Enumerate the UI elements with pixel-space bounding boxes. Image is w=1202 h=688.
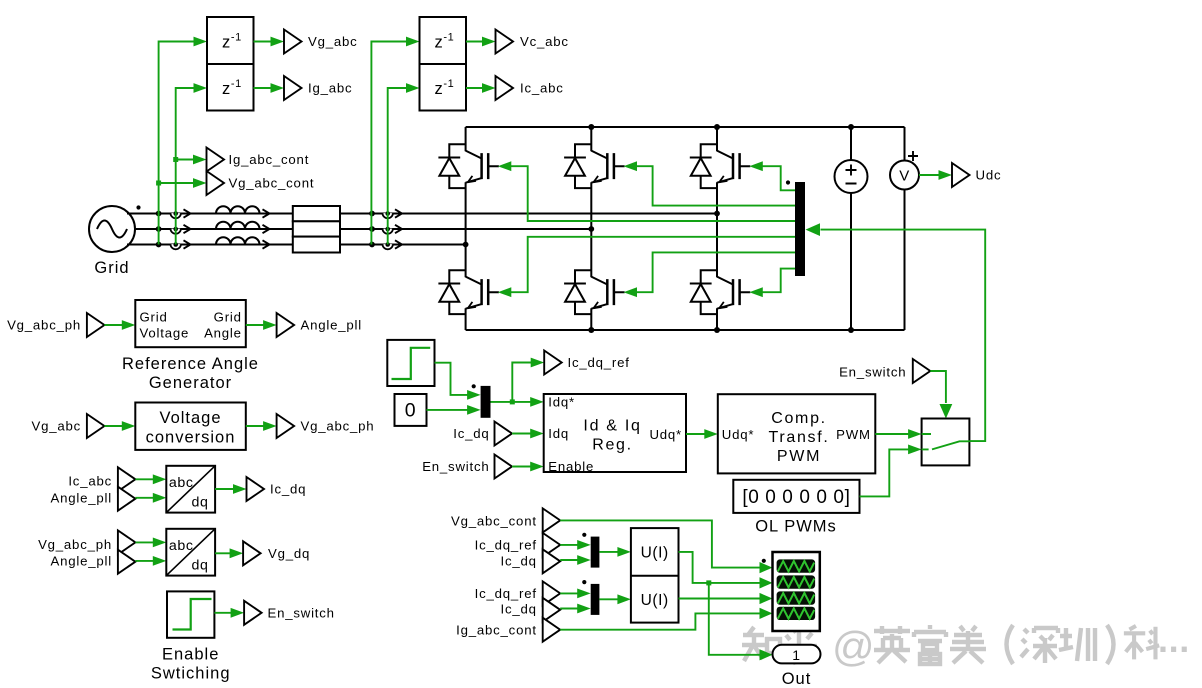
svg-text:V: V (899, 168, 910, 185)
port Ic_abc (496, 76, 514, 100)
svg-text:Ic_abc: Ic_abc (520, 81, 564, 96)
mux bar 4 (591, 584, 600, 615)
svg-text:Reg.: Reg. (592, 437, 633, 454)
current sensor 2 phase A (383, 211, 393, 218)
wire to ref angle gen (104, 324, 123, 326)
current sensor 2 phase C (383, 242, 393, 249)
Reference Angle Generator block U_RAG (122, 300, 259, 392)
wire dq1 in2 (135, 497, 154, 499)
svg-text:Ic_abc: Ic_abc (68, 474, 112, 489)
svg-text:conversion: conversion (146, 429, 236, 447)
transistor Q6 (leg2 bottom IGBT+diode) (564, 270, 625, 314)
node rail bottom dc (848, 327, 854, 333)
svg-text:Vg_abc_cont: Vg_abc_cont (451, 513, 537, 528)
three-phase RLC branch block (293, 206, 340, 253)
svg-text:Vg_dq: Vg_dq (268, 546, 310, 561)
node tap A2 (369, 211, 375, 217)
wire to mux3 in2 (560, 559, 579, 561)
svg-text:Out: Out (782, 670, 812, 688)
watermark zhihu attribution (decorative, drawn behind) (742, 625, 1159, 664)
node scope in2 branch (706, 580, 711, 585)
arrow gate Q5 (749, 161, 763, 171)
wire mux to Idq* (491, 401, 532, 403)
wire gate p5 to Q6 (635, 252, 796, 292)
svg-text:Vg_abc_ph: Vg_abc_ph (38, 537, 112, 552)
leg 3 vertical (716, 127, 718, 330)
svg-text:Ic_dq: Ic_dq (453, 426, 489, 441)
svg-text:...: ... (1158, 619, 1190, 660)
wire gate p3 to Q1 (509, 166, 795, 221)
port Vg_abc (284, 30, 302, 54)
svg-text:dq: dq (192, 558, 209, 574)
svg-text:Angle_pll: Angle_pll (301, 318, 362, 333)
svg-text:Voltage: Voltage (140, 326, 190, 341)
inductor Lc (216, 237, 260, 244)
svg-text:Udq*: Udq* (722, 427, 755, 442)
wire dq2 in2 (135, 560, 154, 562)
inductor Lb (216, 222, 260, 229)
svg-text:[0 0 0 0 0 0]: [0 0 0 0 0 0] (742, 487, 850, 508)
arrow gate Q1 (498, 161, 512, 171)
wire U(I)2 to scope in3 (679, 598, 761, 600)
Comp Transf PWM block (718, 394, 876, 473)
current sensor phase B (171, 227, 181, 234)
arrow gate Q6 (624, 287, 638, 297)
port Vg_abc_ph out (277, 414, 295, 438)
svg-text:abc: abc (169, 475, 194, 491)
wire dq2 out (215, 552, 231, 554)
svg-text:Enable: Enable (548, 459, 594, 474)
arrow gate Q4 (498, 287, 512, 297)
wire dq1 in1 (135, 478, 154, 480)
wire phase C (127, 244, 466, 246)
node rail top leg2 (588, 124, 594, 130)
transistor Q2 (leg3 bottom IGBT+diode) (690, 270, 751, 314)
port Vg_dq out (243, 541, 261, 565)
wire branch to Ic_dq_ref (512, 363, 532, 402)
svg-text:Vg_abc_ph: Vg_abc_ph (301, 419, 375, 434)
wire branch to Vg_abc_cont (159, 182, 194, 184)
wire mux3 to U(I)1 (599, 551, 619, 553)
wire mux4 to U(I)2 (599, 598, 619, 600)
wire to mux3 in1 (560, 544, 579, 546)
svg-text:abc: abc (169, 538, 194, 554)
svg-text:Grid: Grid (214, 310, 242, 325)
svg-text:1: 1 (792, 647, 800, 663)
wire dq1 out (215, 488, 234, 490)
svg-text:Transf.: Transf. (768, 429, 829, 446)
svg-text:En_switch: En_switch (268, 606, 335, 621)
node rail bottom leg3 (714, 327, 720, 333)
DC bus bottom rail (466, 329, 905, 331)
flow arrow B3 (395, 225, 402, 233)
svg-text:Ic_dq_ref: Ic_dq_ref (475, 586, 537, 601)
wire current tap to delay (176, 88, 195, 245)
node phase B to leg2 (588, 226, 594, 232)
voltmeter Udc (890, 127, 919, 330)
flow arrow C3 (395, 240, 402, 248)
node phase A to leg3 (714, 211, 720, 217)
port Ic_dq_ref out (544, 351, 562, 375)
port Vg_abc_cont (207, 171, 225, 195)
svg-text:Udq*: Udq* (649, 427, 682, 442)
wire En_switch to Enable (512, 466, 532, 468)
wire to mux4 in2 (560, 608, 579, 610)
current sensor phase C (171, 242, 181, 249)
svg-text:Grid: Grid (94, 259, 129, 277)
wire conv voltage tap to delay2 (371, 42, 407, 245)
flow arrow C (184, 240, 191, 248)
wire delay1 out2 (254, 87, 273, 89)
node tap B2 (369, 226, 375, 232)
svg-text:Ic_dq_ref: Ic_dq_ref (568, 355, 630, 370)
svg-text:Vg_abc_ph: Vg_abc_ph (7, 318, 81, 333)
svg-text:Enable: Enable (162, 646, 219, 664)
current sensor phase A (171, 211, 181, 218)
svg-text:Ic_dq: Ic_dq (270, 482, 306, 497)
wire U(I)1 to scope in2 (679, 552, 761, 583)
svg-text:Generator: Generator (149, 374, 232, 392)
leg 2 vertical (590, 127, 592, 330)
wire to voltage conversion (104, 425, 123, 427)
flow arrow B2 (263, 225, 270, 233)
flow arrow C2 (263, 240, 270, 248)
abc to dq transform block 1 (166, 466, 215, 513)
gate demux bar (795, 182, 805, 276)
node tap B1 (156, 226, 162, 232)
arrow gate Q3 (624, 161, 638, 171)
port Angle_pll (277, 313, 295, 337)
transistor Q4 (leg1 bottom IGBT+diode) (438, 270, 499, 314)
DC bus top rail (466, 126, 905, 128)
svg-text:Ic_dq: Ic_dq (501, 554, 537, 569)
arrow gate Q2 (749, 287, 763, 297)
node tap C1 (156, 242, 162, 248)
AC source Grid (89, 206, 135, 277)
node rail bottom leg2 (588, 327, 594, 333)
svg-text:Vc_abc: Vc_abc (520, 34, 569, 49)
wire delay2 out1 (466, 41, 484, 43)
wire voltage tap V1 to delay (159, 42, 195, 245)
svg-text:U(I): U(I) (641, 592, 669, 609)
sample-time dot demux (786, 180, 790, 184)
svg-text:PWM: PWM (836, 427, 871, 442)
wire gate p4 to Q4 (509, 237, 795, 292)
sample-time dot mux ref (472, 384, 476, 388)
wire ref angle out (246, 324, 265, 326)
step source block (387, 340, 434, 386)
svg-text:Udc: Udc (976, 168, 1002, 183)
flow arrow A3 (395, 209, 402, 217)
wire Ic_dq to Idq (512, 433, 532, 435)
wire Vg_abc_cont to scope in1 (560, 520, 760, 567)
flow arrow A2 (263, 209, 270, 217)
sample-time dot near Grid (136, 205, 140, 209)
wire delay1 out1 (254, 41, 273, 43)
svg-text:Grid: Grid (140, 310, 168, 325)
outport Out (773, 645, 821, 688)
svg-text:OL PWMs: OL PWMs (755, 518, 837, 536)
wire Ig_abc_cont to scope in4 (560, 613, 760, 629)
svg-text:U(I): U(I) (641, 545, 669, 562)
port Ig_abc (284, 76, 302, 100)
node phase C to leg1 (463, 242, 469, 248)
svg-text:Angle_pll: Angle_pll (51, 554, 112, 569)
selector block U(I) pair (631, 528, 679, 623)
port Ic_dq out (247, 477, 265, 501)
svg-text:@: @ (832, 623, 875, 670)
wire phase A (127, 213, 717, 215)
wire step to mux (435, 363, 469, 395)
wire branch to Ig_abc_cont (176, 159, 194, 161)
svg-text:Ig_abc: Ig_abc (308, 81, 352, 96)
svg-text:En_switch: En_switch (422, 459, 489, 474)
wire Udq* out (686, 433, 706, 435)
wire gate p1 to Q5 (760, 166, 795, 190)
wire gate p6 to Q2 (760, 269, 795, 293)
node rail top leg3 (714, 124, 720, 130)
wire dq2 in1 (135, 541, 154, 543)
svg-text:Comp.: Comp. (771, 410, 827, 427)
sample-time dot scope (762, 559, 766, 563)
svg-text:Angle: Angle (204, 326, 242, 341)
svg-text:Voltage: Voltage (159, 409, 221, 427)
mux bar ref (481, 386, 491, 418)
wire switch out to gate demux (821, 230, 986, 442)
transistor Q1 (leg1 top IGBT+diode) (438, 144, 499, 188)
flow arrow B (184, 225, 191, 233)
node tap A1 (156, 211, 162, 217)
port Udc (952, 163, 970, 187)
mux bar 3 (591, 537, 600, 568)
svg-text:Idq: Idq (548, 426, 569, 441)
current sensor 2 phase B (383, 227, 393, 234)
flow arrow A (184, 209, 191, 217)
unit delay block z-1 pair 1 (207, 17, 254, 111)
abc to dq transform block 2 (166, 529, 215, 576)
wire to mux4 in1 (560, 592, 579, 594)
wire voltage conversion out (246, 425, 265, 427)
wire phase B (135, 228, 591, 230)
svg-text:Id & Iq: Id & Iq (583, 418, 641, 435)
wire En_switch to switch ctrl (930, 371, 946, 403)
svg-text:Idq*: Idq* (548, 395, 575, 410)
svg-text:Ic_dq_ref: Ic_dq_ref (475, 537, 537, 552)
wire branch to Out (709, 583, 761, 655)
svg-text:PWM: PWM (777, 448, 821, 465)
svg-text:Ig_abc_cont: Ig_abc_cont (456, 622, 537, 637)
svg-text:Vg_abc: Vg_abc (308, 34, 358, 49)
Id & Iq Reg block (544, 394, 686, 474)
wire PWM out to switch (875, 433, 909, 435)
port Vc_abc (496, 30, 514, 54)
switch block (922, 419, 970, 466)
Voltage conversion block (135, 403, 246, 450)
port En_switch out (244, 601, 262, 625)
node rail top dc (848, 124, 854, 130)
Enable Swtiching step block (151, 591, 231, 682)
constant OL PWMs block (733, 480, 859, 536)
transistor Q3 (leg2 top IGBT+diode) (564, 144, 625, 188)
wire enable switching out (214, 612, 232, 614)
wire gate p2 to Q3 (635, 166, 796, 205)
constant 0 block (395, 394, 427, 426)
wire voltmeter to Udc port (919, 174, 941, 176)
scope block (773, 552, 820, 631)
node ref branch (510, 399, 515, 404)
node tap C2 (369, 242, 375, 248)
DC voltage source (835, 127, 868, 330)
port Ig_abc_cont (207, 148, 225, 172)
svg-text:Swtiching: Swtiching (151, 665, 231, 683)
inductor La (216, 206, 260, 213)
svg-text:Ig_abc_cont: Ig_abc_cont (229, 152, 310, 167)
leg 1 vertical (465, 127, 467, 330)
wire delay2 out2 (466, 87, 484, 89)
svg-text:Vg_abc: Vg_abc (31, 419, 81, 434)
wire 0 to mux (427, 409, 469, 411)
sample-time dot mux3 (582, 533, 586, 537)
svg-text:Vg_abc_cont: Vg_abc_cont (229, 176, 315, 191)
svg-text:dq: dq (192, 495, 209, 511)
svg-text:0: 0 (405, 400, 416, 422)
wire OL PWMs to switch (860, 449, 910, 496)
sample-time dot mux4 (582, 580, 586, 584)
svg-text:En_switch: En_switch (839, 365, 906, 380)
unit delay block z-1 pair 2 (420, 17, 467, 111)
transistor Q5 (leg3 top IGBT+diode) (690, 144, 751, 188)
wire conv current tap to delay2 (388, 88, 407, 245)
svg-text:Angle_pll: Angle_pll (51, 491, 112, 506)
svg-text:Ic_dq: Ic_dq (501, 602, 537, 617)
svg-text:Reference Angle: Reference Angle (122, 355, 259, 373)
